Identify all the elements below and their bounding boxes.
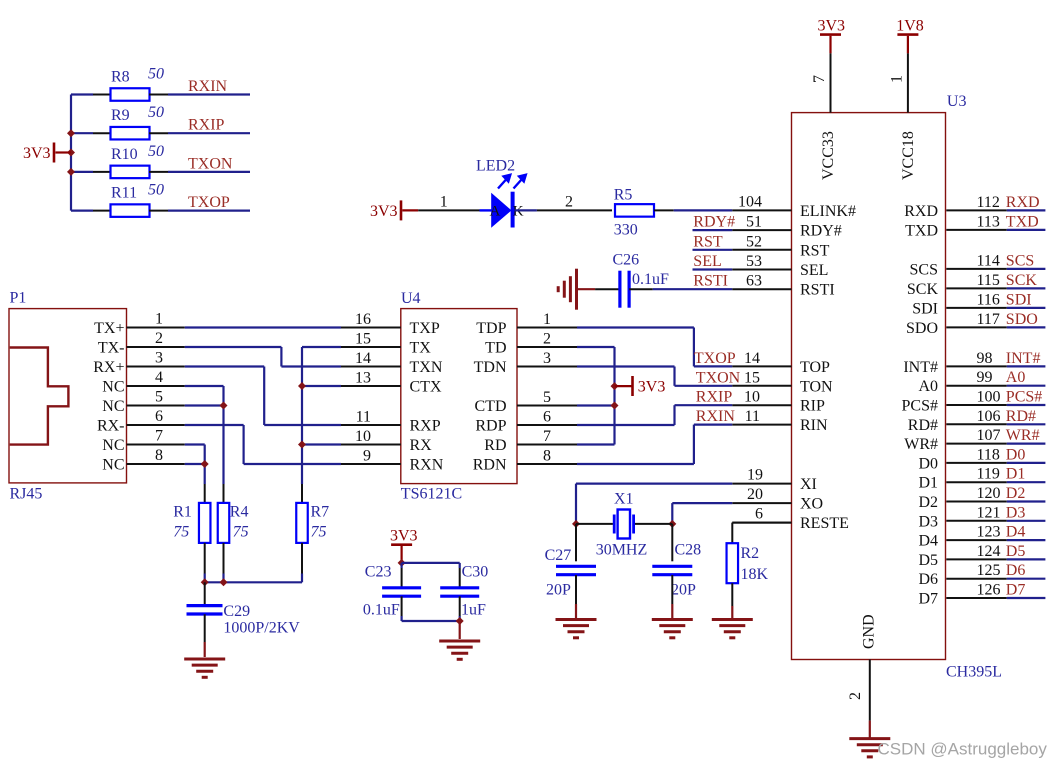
- svg-text:SDO: SDO: [906, 320, 938, 337]
- svg-text:1: 1: [440, 193, 448, 210]
- svg-text:RXP: RXP: [410, 418, 441, 435]
- svg-text:20P: 20P: [671, 582, 696, 599]
- svg-text:63: 63: [746, 273, 762, 290]
- svg-text:126: 126: [977, 582, 1001, 599]
- svg-text:GND: GND: [861, 614, 878, 649]
- svg-text:R2: R2: [741, 545, 760, 562]
- svg-text:TXOP: TXOP: [188, 194, 230, 211]
- svg-text:7: 7: [543, 428, 551, 445]
- svg-text:C30: C30: [462, 564, 489, 581]
- svg-text:15: 15: [744, 369, 760, 386]
- svg-text:3V3: 3V3: [638, 379, 666, 396]
- svg-text:20: 20: [747, 486, 763, 503]
- svg-text:2: 2: [565, 193, 573, 210]
- svg-text:RXIP: RXIP: [696, 389, 733, 406]
- svg-text:D3: D3: [1006, 504, 1026, 521]
- svg-text:D7: D7: [918, 591, 938, 608]
- svg-text:10: 10: [355, 428, 371, 445]
- svg-text:11: 11: [356, 409, 371, 426]
- svg-text:RIP: RIP: [800, 398, 825, 415]
- svg-text:113: 113: [977, 213, 1000, 230]
- svg-text:75: 75: [233, 524, 249, 541]
- svg-text:TDN: TDN: [474, 359, 507, 376]
- svg-text:100: 100: [977, 389, 1001, 406]
- svg-text:CTD: CTD: [475, 398, 507, 415]
- svg-text:D3: D3: [918, 513, 938, 530]
- svg-text:TX-: TX-: [98, 340, 125, 357]
- svg-text:SCS: SCS: [910, 261, 938, 278]
- svg-text:3V3: 3V3: [23, 145, 51, 162]
- svg-text:D0: D0: [1006, 446, 1026, 463]
- svg-text:NC: NC: [102, 379, 124, 396]
- svg-text:TX+: TX+: [94, 320, 124, 337]
- svg-text:D1: D1: [918, 475, 938, 492]
- svg-text:7: 7: [155, 428, 163, 445]
- svg-text:3V3: 3V3: [818, 18, 846, 35]
- svg-text:TX: TX: [410, 340, 432, 357]
- svg-text:TXOP: TXOP: [694, 350, 736, 367]
- svg-text:VCC18: VCC18: [900, 131, 917, 180]
- svg-text:INT#: INT#: [903, 359, 938, 376]
- svg-text:TXN: TXN: [410, 359, 443, 376]
- svg-text:RDN: RDN: [473, 457, 507, 474]
- svg-text:RXIN: RXIN: [188, 78, 228, 95]
- svg-text:16: 16: [355, 311, 371, 328]
- svg-text:U3: U3: [947, 93, 967, 110]
- svg-text:P1: P1: [10, 290, 27, 307]
- svg-text:U4: U4: [401, 290, 421, 307]
- svg-text:PCS#: PCS#: [1006, 389, 1042, 406]
- svg-text:INT#: INT#: [1006, 350, 1041, 367]
- svg-text:107: 107: [977, 427, 1001, 444]
- svg-text:SDO: SDO: [1006, 311, 1038, 328]
- svg-text:WR#: WR#: [1006, 427, 1040, 444]
- svg-text:RX-: RX-: [97, 418, 125, 435]
- svg-text:WR#: WR#: [904, 436, 938, 453]
- svg-text:2: 2: [543, 331, 551, 348]
- svg-text:R11: R11: [111, 185, 137, 202]
- svg-text:20P: 20P: [546, 582, 571, 599]
- svg-text:50: 50: [148, 182, 164, 199]
- svg-text:TD: TD: [485, 340, 506, 357]
- svg-text:125: 125: [977, 562, 1001, 579]
- svg-text:C23: C23: [365, 564, 392, 581]
- svg-text:RST: RST: [800, 242, 830, 259]
- svg-text:NC: NC: [102, 437, 124, 454]
- svg-text:51: 51: [746, 214, 762, 231]
- svg-text:VCC33: VCC33: [820, 131, 837, 180]
- svg-text:C29: C29: [223, 603, 250, 620]
- svg-text:RX+: RX+: [93, 359, 124, 376]
- svg-text:K: K: [513, 204, 524, 220]
- svg-text:18K: 18K: [741, 566, 769, 583]
- svg-text:5: 5: [155, 389, 163, 406]
- svg-text:RXD: RXD: [1006, 194, 1040, 211]
- svg-text:RXN: RXN: [410, 457, 444, 474]
- svg-text:R8: R8: [111, 69, 130, 86]
- svg-text:RXIP: RXIP: [188, 117, 225, 134]
- svg-text:RESTE: RESTE: [800, 515, 849, 532]
- svg-text:14: 14: [744, 350, 760, 367]
- svg-text:RD: RD: [484, 437, 506, 454]
- svg-text:3V3: 3V3: [370, 203, 398, 220]
- svg-text:123: 123: [977, 524, 1001, 541]
- svg-text:CSDN @Astruggleboy: CSDN @Astruggleboy: [878, 739, 1048, 758]
- svg-text:R5: R5: [614, 187, 633, 204]
- svg-text:1V8: 1V8: [896, 18, 924, 35]
- svg-text:CH395L: CH395L: [946, 664, 1002, 681]
- svg-text:NC: NC: [102, 457, 124, 474]
- svg-text:30MHZ: 30MHZ: [596, 542, 648, 559]
- svg-text:3: 3: [155, 350, 163, 367]
- svg-text:330: 330: [614, 222, 638, 239]
- svg-text:RD#: RD#: [1006, 408, 1036, 425]
- svg-text:SDI: SDI: [912, 300, 938, 317]
- svg-text:118: 118: [977, 446, 1000, 463]
- svg-text:RSTI: RSTI: [800, 282, 835, 299]
- svg-text:2: 2: [847, 692, 864, 700]
- svg-text:R9: R9: [111, 107, 130, 124]
- svg-text:RXIN: RXIN: [696, 408, 736, 425]
- svg-text:LED2: LED2: [476, 158, 515, 175]
- svg-text:TXON: TXON: [188, 155, 233, 172]
- svg-text:RST: RST: [693, 233, 723, 250]
- svg-text:112: 112: [977, 194, 1000, 211]
- svg-text:115: 115: [977, 272, 1000, 289]
- svg-text:6: 6: [543, 409, 551, 426]
- svg-text:RJ45: RJ45: [10, 486, 43, 503]
- svg-text:120: 120: [977, 485, 1001, 502]
- svg-text:X1: X1: [614, 491, 634, 508]
- svg-text:D7: D7: [1006, 582, 1026, 599]
- svg-text:TXD: TXD: [1006, 213, 1039, 230]
- svg-text:ELINK#: ELINK#: [800, 203, 856, 220]
- svg-text:R10: R10: [111, 146, 138, 163]
- svg-text:XO: XO: [800, 496, 823, 513]
- svg-text:119: 119: [977, 466, 1000, 483]
- svg-text:106: 106: [977, 408, 1001, 425]
- svg-text:C27: C27: [545, 547, 572, 564]
- svg-text:TOP: TOP: [800, 359, 830, 376]
- svg-text:TXD: TXD: [905, 222, 938, 239]
- svg-text:NC: NC: [102, 398, 124, 415]
- svg-text:D5: D5: [1006, 543, 1026, 560]
- svg-text:0.1uF: 0.1uF: [363, 602, 400, 619]
- svg-text:TDP: TDP: [476, 320, 506, 337]
- svg-text:50: 50: [148, 104, 164, 121]
- svg-text:RDY#: RDY#: [800, 223, 842, 240]
- svg-text:RDY#: RDY#: [693, 214, 735, 231]
- svg-text:D0: D0: [918, 455, 938, 472]
- svg-text:53: 53: [746, 253, 762, 270]
- svg-text:SCS: SCS: [1006, 252, 1034, 269]
- svg-text:98: 98: [977, 350, 993, 367]
- svg-text:SCK: SCK: [907, 281, 939, 298]
- svg-text:116: 116: [977, 291, 1000, 308]
- svg-text:0.1uF: 0.1uF: [632, 271, 669, 288]
- svg-text:A0: A0: [918, 378, 938, 395]
- svg-text:19: 19: [747, 467, 763, 484]
- svg-text:11: 11: [745, 408, 760, 425]
- svg-text:1: 1: [888, 75, 905, 83]
- svg-text:D1: D1: [1006, 466, 1026, 483]
- svg-text:D6: D6: [918, 571, 938, 588]
- svg-text:8: 8: [155, 447, 163, 464]
- svg-text:7: 7: [811, 75, 828, 83]
- svg-text:117: 117: [977, 311, 1000, 328]
- svg-text:SDI: SDI: [1006, 291, 1032, 308]
- svg-text:1: 1: [543, 311, 551, 328]
- svg-text:RD#: RD#: [908, 417, 938, 434]
- svg-text:TXP: TXP: [410, 320, 440, 337]
- svg-text:D4: D4: [1006, 524, 1026, 541]
- svg-text:D6: D6: [1006, 562, 1026, 579]
- svg-text:5: 5: [543, 389, 551, 406]
- svg-text:3: 3: [543, 350, 551, 367]
- svg-text:PCS#: PCS#: [902, 398, 938, 415]
- svg-text:99: 99: [977, 369, 993, 386]
- svg-text:TON: TON: [800, 378, 833, 395]
- svg-text:TXON: TXON: [696, 369, 741, 386]
- svg-text:R1: R1: [173, 503, 192, 520]
- svg-text:RXD: RXD: [904, 203, 938, 220]
- svg-text:6: 6: [155, 408, 163, 425]
- svg-text:D2: D2: [1006, 485, 1026, 502]
- svg-text:50: 50: [148, 66, 164, 83]
- svg-text:1uF: 1uF: [461, 602, 486, 619]
- svg-text:6: 6: [755, 506, 763, 523]
- svg-text:XI: XI: [800, 476, 817, 493]
- svg-text:4: 4: [155, 369, 163, 386]
- svg-text:10: 10: [744, 389, 760, 406]
- svg-text:C28: C28: [675, 542, 702, 559]
- svg-text:9: 9: [363, 448, 371, 465]
- svg-text:3V3: 3V3: [390, 528, 418, 545]
- svg-text:D5: D5: [918, 552, 938, 569]
- svg-text:A: A: [490, 204, 501, 220]
- svg-text:75: 75: [173, 524, 189, 541]
- svg-text:RX: RX: [410, 437, 433, 454]
- svg-text:TS6121C: TS6121C: [401, 486, 462, 503]
- svg-text:D2: D2: [918, 494, 938, 511]
- svg-text:1000P/2KV: 1000P/2KV: [223, 620, 300, 637]
- svg-text:SEL: SEL: [800, 262, 828, 279]
- svg-text:13: 13: [355, 370, 371, 387]
- svg-text:124: 124: [977, 543, 1001, 560]
- svg-text:8: 8: [543, 448, 551, 465]
- svg-text:14: 14: [355, 350, 371, 367]
- svg-text:RDP: RDP: [475, 418, 506, 435]
- svg-text:D4: D4: [918, 533, 938, 550]
- svg-text:R7: R7: [311, 503, 330, 520]
- svg-text:SEL: SEL: [693, 253, 721, 270]
- svg-text:RIN: RIN: [800, 417, 828, 434]
- svg-text:75: 75: [311, 524, 327, 541]
- svg-text:C26: C26: [613, 252, 640, 269]
- svg-text:114: 114: [977, 252, 1000, 269]
- svg-text:104: 104: [738, 193, 762, 210]
- svg-text:CTX: CTX: [410, 379, 442, 396]
- svg-text:2: 2: [155, 330, 163, 347]
- svg-text:1: 1: [155, 311, 163, 328]
- svg-text:52: 52: [746, 233, 762, 250]
- svg-text:R4: R4: [230, 503, 249, 520]
- svg-text:121: 121: [977, 504, 1001, 521]
- svg-text:15: 15: [355, 331, 371, 348]
- svg-text:50: 50: [148, 143, 164, 160]
- svg-text:RSTI: RSTI: [693, 273, 728, 290]
- svg-text:SCK: SCK: [1006, 272, 1038, 289]
- svg-text:A0: A0: [1006, 369, 1026, 386]
